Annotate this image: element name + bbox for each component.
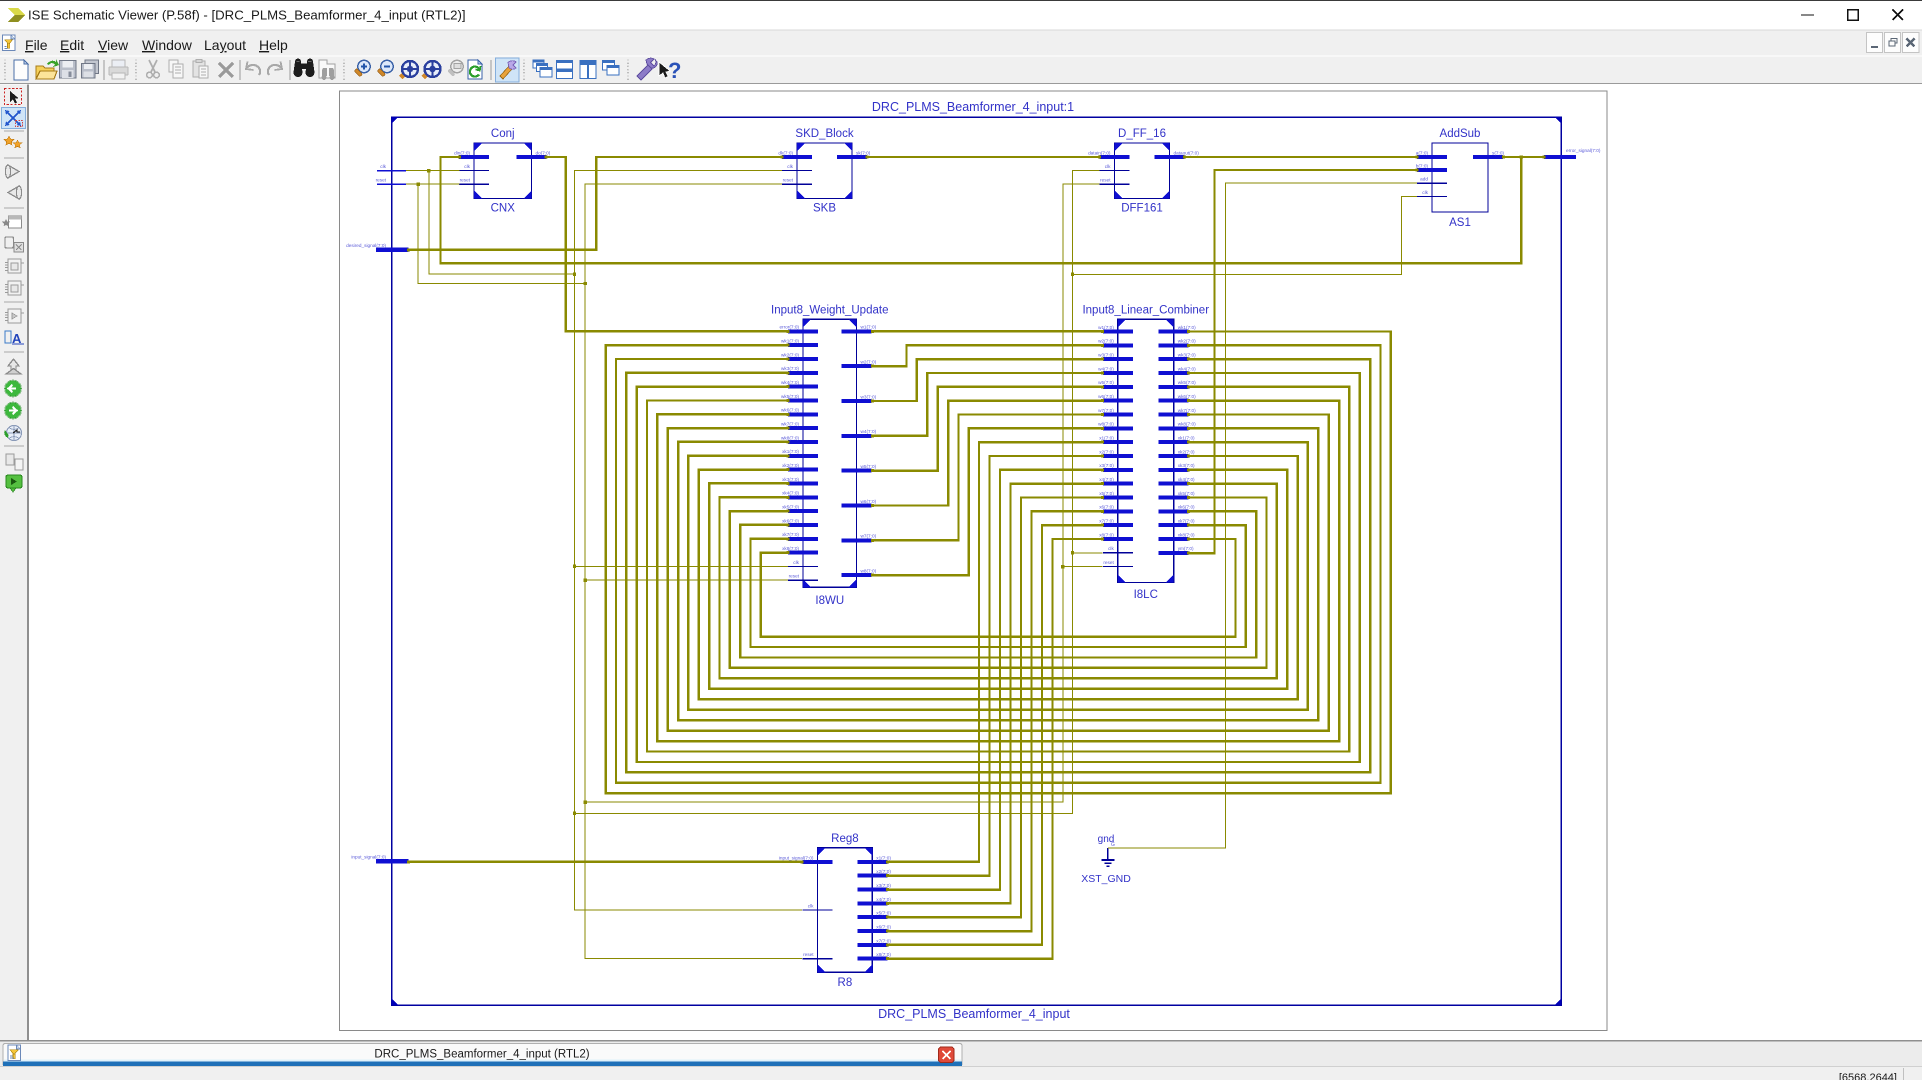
wire R8.x7 -> I8LC.x7	[886, 524, 1104, 947]
wire I8WU.w8 -> I8LC.w8	[871, 427, 1104, 577]
svg-text:wk1(7:0): wk1(7:0)	[1178, 325, 1196, 330]
svg-text:w3(7:0): w3(7:0)	[1098, 353, 1114, 358]
wire clk drop from port line	[427, 169, 574, 274]
svg-text:x8(7:0): x8(7:0)	[876, 952, 891, 957]
svg-text:wk5(7:0): wk5(7:0)	[781, 394, 799, 399]
wire reset trunk (SKB.reset down to R8.reset)	[584, 184, 802, 959]
svg-text:reset: reset	[789, 574, 800, 579]
wire I8WU.w5 -> I8LC.w5	[871, 385, 1104, 472]
wire I8WU.reset stub link	[585, 579, 788, 581]
block U-Input8_Weight_Update I8WU	[771, 305, 888, 608]
wire CNX.do -> I8WU.error	[544, 156, 789, 333]
svg-text:s(7:0): s(7:0)	[1492, 150, 1504, 155]
wire R8.x3 -> I8LC.x3	[886, 468, 1104, 891]
wire I8WU.w4 -> I8LC.w4	[871, 371, 1104, 437]
wire I8LC.wk1 -> I8WU.wk1 (feedback loop)	[606, 330, 1391, 793]
svg-text:clk: clk	[793, 560, 799, 565]
svg-text:xk8(7:0): xk8(7:0)	[1178, 532, 1195, 537]
tab document icon	[8, 1045, 21, 1061]
wire I8LC.ym -> AS1.b	[1187, 169, 1418, 555]
svg-text:desired_signal(7:0): desired_signal(7:0)	[346, 243, 386, 248]
svg-text:D_FF_16: D_FF_16	[1118, 128, 1166, 140]
svg-text:w5(7:0): w5(7:0)	[1098, 380, 1114, 385]
mdi minimize button	[1867, 33, 1883, 53]
wire R8.x2 -> I8LC.x2	[886, 454, 1104, 877]
status bar separator	[1903, 1068, 1905, 1080]
svg-text:x4(7:0): x4(7:0)	[1099, 477, 1114, 482]
svg-text:clk: clk	[464, 164, 470, 169]
mdi restore button	[1885, 33, 1901, 53]
wire I8WU.w7 -> I8LC.w7	[871, 413, 1104, 542]
wire I8LC.wk8 -> I8WU.wk8 (feedback loop)	[678, 427, 1318, 720]
svg-text:w6(7:0): w6(7:0)	[1098, 394, 1114, 399]
block U-D_FF_16 DFF161	[1088, 128, 1199, 215]
wire clk port -> CNX.clk	[406, 170, 460, 172]
svg-text:DFF161: DFF161	[1121, 203, 1163, 215]
document tab	[3, 1044, 962, 1067]
wire I8WU.w2 -> I8LC.w2	[871, 344, 1104, 368]
svg-text:DRC_PLMS_Beamformer_4_input: DRC_PLMS_Beamformer_4_input	[878, 1007, 1070, 1021]
svg-text:ym(7:0): ym(7:0)	[1178, 546, 1194, 551]
wire XST_GND -> AS1.add	[1108, 183, 1417, 848]
svg-text:Layout: Layout	[204, 37, 246, 53]
svg-text:dk(7:0): dk(7:0)	[778, 150, 793, 155]
svg-text:wk2(7:0): wk2(7:0)	[781, 352, 799, 357]
svg-text:reset: reset	[783, 178, 794, 183]
wire I8LC.wk3 -> I8WU.wk3 (feedback loop)	[626, 358, 1370, 773]
wire reset port -> CNX.reset	[406, 183, 460, 185]
svg-text:wk7(7:0): wk7(7:0)	[781, 422, 799, 427]
svg-text:?: ?	[668, 58, 681, 83]
svg-text:xk3(7:0): xk3(7:0)	[782, 477, 799, 482]
block U-AddSub AS1	[1416, 128, 1505, 229]
wire I8LC.wk6 -> I8WU.wk6 (feedback loop)	[657, 399, 1339, 741]
port desired_signal(7:0)	[346, 243, 408, 252]
toolbar icons	[4, 58, 681, 83]
svg-text:G: G	[1111, 842, 1115, 848]
svg-text:Help: Help	[259, 37, 288, 53]
svg-text:sk(7:0): sk(7:0)	[856, 150, 871, 155]
svg-text:Input8_Linear_Combiner: Input8_Linear_Combiner	[1082, 305, 1209, 317]
svg-text:x5(7:0): x5(7:0)	[876, 911, 891, 916]
svg-text:Window: Window	[142, 37, 193, 53]
svg-text:wk3(7:0): wk3(7:0)	[781, 366, 799, 371]
svg-text:x6(7:0): x6(7:0)	[1099, 505, 1114, 510]
svg-text:[6568,2644]: [6568,2644]	[1839, 1072, 1897, 1080]
svg-text:xk7(7:0): xk7(7:0)	[1178, 519, 1195, 524]
svg-text:xk1(7:0): xk1(7:0)	[1178, 436, 1195, 441]
wire I8LC.wk5 -> I8WU.wk5 (feedback loop)	[647, 385, 1349, 751]
svg-text:xk3(7:0): xk3(7:0)	[1178, 463, 1195, 468]
schematic sheet frame	[340, 91, 1608, 1031]
svg-text:wk1(7:0): wk1(7:0)	[781, 339, 799, 344]
svg-text:reset: reset	[1100, 178, 1111, 183]
svg-text:DRC_PLMS_Beamformer_4_input (R: DRC_PLMS_Beamformer_4_input (RTL2)	[374, 1049, 589, 1061]
svg-text:clk: clk	[1105, 164, 1111, 169]
svg-text:wk8(7:0): wk8(7:0)	[781, 435, 799, 440]
wire R8.x1 -> I8LC.x1	[886, 441, 1104, 864]
svg-text:do(7:0): do(7:0)	[536, 150, 551, 155]
svg-text:xk5(7:0): xk5(7:0)	[1178, 491, 1195, 496]
svg-text:ISE Schematic Viewer (P.58f) -: ISE Schematic Viewer (P.58f) - [DRC_PLMS…	[28, 8, 466, 23]
wire I8LC.xk8 -> I8WU.xk8 (feedback loop)	[761, 537, 1236, 636]
svg-text:w1(7:0): w1(7:0)	[861, 325, 877, 330]
svg-text:w8(7:0): w8(7:0)	[861, 569, 877, 574]
svg-text:wk6(7:0): wk6(7:0)	[781, 408, 799, 413]
wire desired_signal -> SKB.dk	[407, 156, 784, 252]
svg-text:DRC_PLMS_Beamformer_4_input:1: DRC_PLMS_Beamformer_4_input:1	[872, 100, 1074, 114]
wire AS1.s feedback -> CNX.din	[441, 155, 1524, 263]
port reset	[376, 177, 406, 184]
wire I8LC.xk2 -> I8WU.xk2 (feedback loop)	[699, 454, 1298, 699]
left tool panel icons	[2, 89, 26, 493]
wire clk cross link -> DFF161.clk	[575, 171, 1100, 814]
menu items	[25, 37, 288, 53]
svg-text:clk: clk	[787, 164, 793, 169]
svg-text:x3(7:0): x3(7:0)	[876, 883, 891, 888]
svg-text:x1(7:0): x1(7:0)	[1099, 436, 1114, 441]
svg-text:error_signal(7:0): error_signal(7:0)	[1566, 148, 1601, 153]
svg-text:wk8(7:0): wk8(7:0)	[1178, 422, 1196, 427]
svg-text:xk8(7:0): xk8(7:0)	[782, 546, 799, 551]
svg-text:reset: reset	[376, 177, 387, 182]
svg-text:Input8_Weight_Update: Input8_Weight_Update	[771, 305, 888, 317]
wire I8LC.xk5 -> I8WU.xk5 (feedback loop)	[730, 496, 1267, 668]
svg-text:SKD_Block: SKD_Block	[795, 128, 853, 140]
svg-text:w3(7:0): w3(7:0)	[861, 394, 877, 399]
svg-text:wk4(7:0): wk4(7:0)	[1178, 366, 1196, 371]
svg-text:x6(7:0): x6(7:0)	[876, 924, 891, 929]
svg-text:clk: clk	[808, 903, 814, 908]
svg-text:xk4(7:0): xk4(7:0)	[1178, 477, 1195, 482]
svg-text:reset: reset	[460, 178, 471, 183]
svg-text:xk4(7:0): xk4(7:0)	[782, 491, 799, 496]
svg-text:w2(7:0): w2(7:0)	[1098, 339, 1114, 344]
svg-text:View: View	[98, 37, 129, 53]
svg-text:clk: clk	[380, 164, 386, 169]
port input_signal(7:0)	[351, 855, 408, 864]
svg-text:x4(7:0): x4(7:0)	[876, 897, 891, 902]
svg-text:x2(7:0): x2(7:0)	[876, 869, 891, 874]
svg-text:xk2(7:0): xk2(7:0)	[782, 463, 799, 468]
svg-text:din(7:0): din(7:0)	[454, 150, 470, 155]
svg-text:add: add	[1420, 177, 1428, 182]
wire I8LC.xk4 -> I8WU.xk4 (feedback loop)	[719, 482, 1276, 678]
svg-text:xk1(7:0): xk1(7:0)	[782, 449, 799, 454]
svg-text:w5(7:0): w5(7:0)	[861, 464, 877, 469]
svg-text:clk: clk	[1422, 190, 1428, 195]
svg-text:w8(7:0): w8(7:0)	[1098, 422, 1114, 427]
wire R8.x4 -> I8LC.x4	[886, 482, 1104, 905]
wire DFF161.dataout -> AS1.a	[1183, 156, 1419, 159]
svg-text:Reg8: Reg8	[831, 833, 859, 845]
mdi close button	[1903, 33, 1920, 53]
svg-text:xk2(7:0): xk2(7:0)	[1178, 449, 1195, 454]
svg-text:File: File	[25, 37, 48, 53]
svg-text:reset: reset	[1103, 560, 1114, 565]
svg-text:w1(7:0): w1(7:0)	[1098, 325, 1114, 330]
port error_signal(7:0)	[1544, 148, 1601, 159]
svg-text:x5(7:0): x5(7:0)	[1099, 491, 1114, 496]
wire clk trunk (SKB.clk down to R8.clk)	[573, 171, 802, 910]
svg-text:x7(7:0): x7(7:0)	[1099, 519, 1114, 524]
wire input_signal -> R8.input_signal	[407, 860, 803, 863]
wire I8LC.xk1 -> I8WU.xk1 (feedback loop)	[688, 441, 1308, 710]
svg-text:dataout(7:0): dataout(7:0)	[1174, 150, 1200, 155]
tab close button	[939, 1047, 955, 1063]
wire I8WU.clk stub link	[575, 565, 789, 567]
wire reset drop from port line	[416, 183, 585, 284]
window minimize button	[1801, 14, 1814, 16]
wire I8WU.w1 -> I8LC.w1	[871, 330, 1104, 333]
svg-text:AS1: AS1	[1449, 217, 1471, 229]
wire clk branch -> AS1.clk	[1073, 196, 1418, 274]
block U-Reg8 R8	[779, 833, 891, 989]
wire I8LC.xk7 -> I8WU.xk7 (feedback loop)	[751, 524, 1246, 647]
svg-text:x2(7:0): x2(7:0)	[1099, 449, 1114, 454]
svg-text:wk5(7:0): wk5(7:0)	[1178, 380, 1196, 385]
svg-text:w4(7:0): w4(7:0)	[861, 429, 877, 434]
port clk	[377, 164, 406, 171]
svg-text:w7(7:0): w7(7:0)	[1098, 408, 1114, 413]
svg-text:a(7:0): a(7:0)	[1416, 150, 1429, 155]
wire R8.x5 -> I8LC.x5	[886, 496, 1104, 919]
svg-text:x1(7:0): x1(7:0)	[876, 855, 891, 860]
svg-text:x7(7:0): x7(7:0)	[876, 938, 891, 943]
svg-text:x8(7:0): x8(7:0)	[1099, 532, 1114, 537]
svg-text:error(7:0): error(7:0)	[779, 325, 799, 330]
svg-text:xk6(7:0): xk6(7:0)	[782, 518, 799, 523]
wire SKB.sk -> DFF161.datain	[866, 156, 1102, 159]
svg-text:wk4(7:0): wk4(7:0)	[781, 380, 799, 385]
svg-text:Edit: Edit	[60, 37, 84, 53]
svg-text:I8WU: I8WU	[815, 595, 844, 607]
svg-text:datain(7:0): datain(7:0)	[1088, 150, 1111, 155]
schematic boundary (module body)	[392, 117, 1562, 1005]
wire AS1.s -> error_signal port	[1502, 156, 1546, 159]
svg-text:input_signal(7:0): input_signal(7:0)	[779, 855, 814, 860]
svg-text:w6(7:0): w6(7:0)	[861, 499, 877, 504]
svg-text:wk7(7:0): wk7(7:0)	[1178, 408, 1196, 413]
wire I8LC.reset stub link	[1063, 566, 1103, 568]
svg-text:b(7:0): b(7:0)	[1416, 163, 1429, 168]
wire I8LC.wk4 -> I8WU.wk4 (feedback loop)	[637, 371, 1360, 761]
svg-text:I8LC: I8LC	[1134, 589, 1158, 601]
svg-text:xk6(7:0): xk6(7:0)	[1178, 505, 1195, 510]
svg-text:w2(7:0): w2(7:0)	[861, 360, 877, 365]
block U-Input8_Linear_Combiner I8LC	[1082, 305, 1209, 602]
window maximize button	[1848, 10, 1859, 21]
block U-SKD_Block SKB	[778, 128, 870, 215]
wire I8LC.clk stub link	[1073, 552, 1103, 554]
wire R8.x8 -> I8LC.x8	[886, 537, 1104, 960]
svg-text:xk7(7:0): xk7(7:0)	[782, 532, 799, 537]
svg-text:wk3(7:0): wk3(7:0)	[1178, 353, 1196, 358]
wire R8.x6 -> I8LC.x6	[886, 510, 1104, 933]
wire I8LC.xk3 -> I8WU.xk3 (feedback loop)	[709, 468, 1287, 689]
svg-text:input_signal(7:0): input_signal(7:0)	[351, 855, 386, 860]
svg-text:w7(7:0): w7(7:0)	[861, 534, 877, 539]
svg-text:w4(7:0): w4(7:0)	[1098, 366, 1114, 371]
menu file icon	[3, 35, 16, 51]
svg-text:x3(7:0): x3(7:0)	[1099, 463, 1114, 468]
wire I8WU.w3 -> I8LC.w3	[871, 358, 1104, 403]
svg-text:wk2(7:0): wk2(7:0)	[1178, 339, 1196, 344]
svg-text:xk5(7:0): xk5(7:0)	[782, 504, 799, 509]
app logo (ISE chevron)	[8, 8, 26, 22]
wire I8LC.wk2 -> I8WU.wk2 (feedback loop)	[616, 344, 1380, 783]
wire reset cross link -> DFF161.reset	[585, 184, 1099, 802]
svg-text:AddSub: AddSub	[1440, 128, 1481, 140]
block U-Conj CNX	[454, 128, 551, 215]
svg-text:Conj: Conj	[491, 128, 515, 140]
svg-text:clk: clk	[1108, 546, 1114, 551]
ground symbol XST_GND	[1081, 834, 1131, 885]
wire I8LC.wk7 -> I8WU.wk7 (feedback loop)	[668, 413, 1329, 731]
svg-text:wk6(7:0): wk6(7:0)	[1178, 394, 1196, 399]
wire I8LC.xk6 -> I8WU.xk6 (feedback loop)	[740, 510, 1256, 658]
window close button	[1893, 10, 1904, 21]
svg-text:XST_GND: XST_GND	[1081, 873, 1131, 885]
svg-text:reset: reset	[803, 952, 814, 957]
svg-text:CNX: CNX	[491, 203, 516, 215]
wire I8WU.w6 -> I8LC.w6	[871, 399, 1104, 507]
svg-text:R8: R8	[838, 977, 853, 989]
svg-text:SKB: SKB	[813, 203, 836, 215]
